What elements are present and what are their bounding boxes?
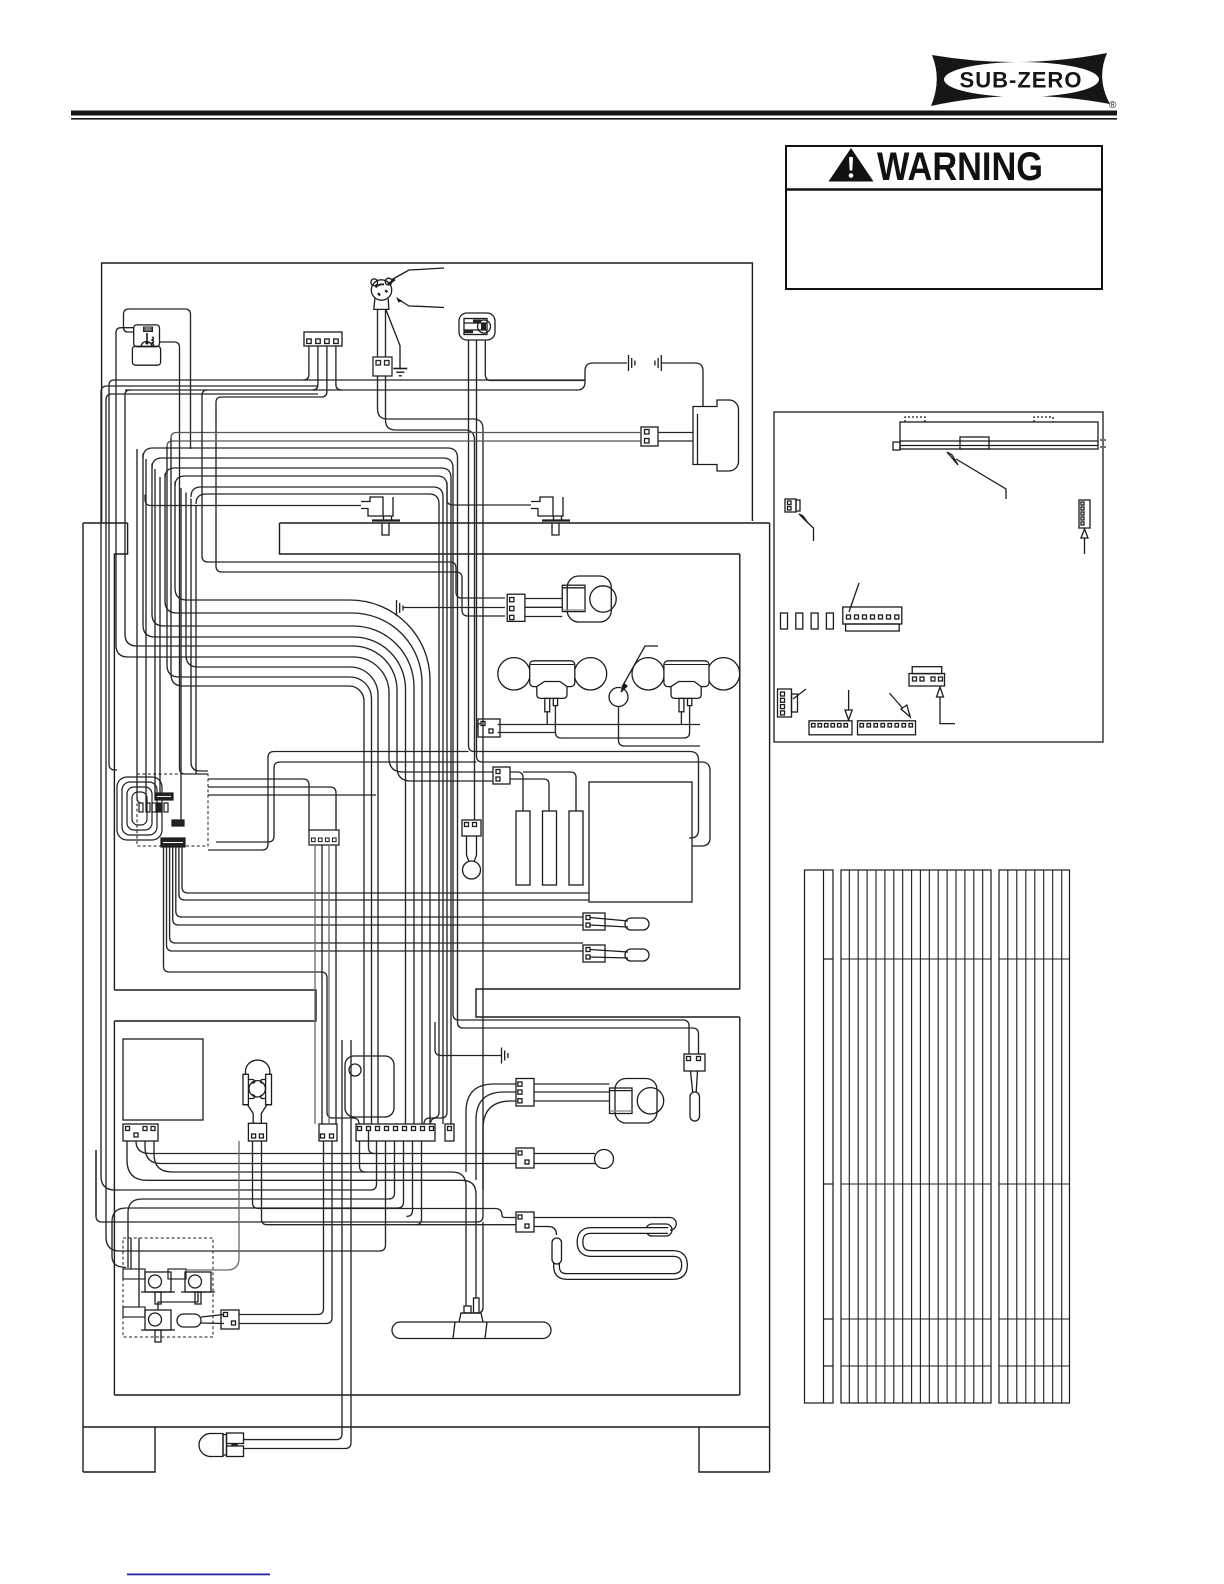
plug ground: [386, 309, 400, 368]
wire receptacle lead 2: [477, 340, 711, 846]
wire lamp thermostat drop: [619, 707, 701, 747]
bottom-left 4-pin vertical connector: [778, 689, 792, 717]
fan thermostat connector: [516, 1148, 534, 1168]
wire mid conn lead 1: [314, 845, 316, 1124]
defrost heater terminal capsule: [552, 1238, 562, 1264]
thermistor connector: [462, 820, 481, 836]
wire bus left 3: [112, 1141, 404, 1268]
wire run 397b: [221, 396, 321, 398]
inner wall right: [739, 554, 741, 989]
capacitor gap symbols: [628, 355, 630, 371]
condenser fan connector: [516, 1079, 664, 1124]
svg-text:®: ®: [1109, 100, 1117, 111]
wire switch loop: [124, 309, 191, 449]
heater capsule 1: [516, 811, 530, 885]
wire ground lower lead: [441, 1055, 502, 1057]
wire cond fan feed 1: [466, 1084, 516, 1172]
cord plug 1 on cabinet top: [361, 497, 400, 535]
wire run 458b: [152, 464, 414, 1125]
wire cond fan feed 3: [483, 1101, 516, 1190]
bottom connector 2: [858, 721, 916, 735]
wire fuse out 1: [239, 1141, 324, 1315]
drain heater capsule 1: [625, 918, 649, 930]
drain heater capsule 2: [625, 949, 649, 961]
svg-text:SUB-ZERO: SUB-ZERO: [960, 68, 1083, 93]
wire bus fan 1: [154, 1141, 466, 1306]
wire run 494: [196, 494, 439, 906]
4-pin connector mid: [909, 674, 945, 687]
ground symbol lower: [502, 1048, 508, 1064]
wire cond fan link 3: [534, 1100, 610, 1102]
door switch: [134, 325, 160, 347]
wire lamp out 1: [253, 1141, 517, 1218]
wire ribbon 3 to heater conn 1: [176, 847, 583, 917]
cabinet bottom wall: [83, 1426, 770, 1428]
wire run 458: [152, 458, 453, 1014]
wire fz stat feed 2: [458, 1022, 699, 1054]
4-pin terminal block: [304, 332, 342, 346]
wire heater trio 2: [510, 779, 549, 811]
blue footer underline: [127, 1574, 270, 1576]
wire compressor pair 1b: [171, 438, 364, 1124]
right fin group: [999, 870, 1070, 1403]
timer 4-pin connector: [123, 1124, 158, 1141]
right vertical connector: [1079, 500, 1090, 528]
defrost heater serpentine tube: [557, 1231, 685, 1277]
wire valve feed b: [138, 1238, 140, 1307]
wire fan ground: [403, 607, 505, 609]
wire plug lead 2: [385, 310, 387, 357]
wire fuse out 2: [239, 1141, 332, 1324]
wire compressor link 2: [658, 440, 693, 442]
wire ribbon 6 to heater conn 2: [167, 847, 584, 951]
wire run 468: [165, 468, 451, 946]
wire strip pin7 tap: [407, 1141, 413, 1216]
receptacle: [459, 313, 495, 340]
evap fan connector: [507, 594, 525, 621]
wire receptacle lead 1: [469, 340, 699, 838]
lamp fixture left: [498, 658, 530, 690]
wire run 380: [109, 380, 585, 385]
wire run 390 capacitor feed: [125, 390, 493, 781]
thermal fuse connector: [221, 1310, 239, 1329]
cabinet top wall segments: [83, 522, 128, 524]
cabinet lamp: [246, 1060, 270, 1074]
solenoid tab 1: [123, 1269, 145, 1279]
wire plug lead 1: [377, 310, 379, 357]
wire compressor pair 2: [167, 441, 641, 447]
drain pan heater bulb: [199, 1433, 223, 1456]
heater trio connector: [493, 767, 510, 784]
thermistor: [463, 861, 481, 879]
lamp 2-pin connector: [248, 1123, 266, 1141]
wire cluster feed 2: [145, 459, 147, 803]
power plug: [371, 280, 391, 300]
wire fan link2: [525, 606, 562, 608]
wire switch feed: [116, 328, 493, 772]
lamp 2-pin connector: [478, 719, 500, 737]
wire strip pin1 tap: [360, 1141, 366, 1172]
wire loop 1: [117, 777, 162, 840]
wire ribbon 5 to heater conn 2: [170, 847, 583, 943]
wire heater feed 2: [442, 914, 444, 1125]
wire run 476: [175, 476, 447, 938]
starter relay rounded box: [345, 1056, 394, 1117]
wire cluster feed 5: [180, 488, 182, 820]
compressor: [693, 400, 739, 471]
connector chip A: [155, 793, 173, 800]
connector chip B: [172, 820, 184, 826]
wire valve feed a: [130, 1238, 132, 1269]
wire run 487: [191, 487, 443, 914]
inner wall top: [280, 523, 740, 554]
svg-text:WARNING: WARNING: [877, 145, 1043, 189]
top compartment outer box: [102, 263, 753, 522]
SUB-ZERO logo: [931, 53, 1117, 111]
condenser grille fins: [841, 870, 1070, 1403]
small connector left: [785, 499, 796, 512]
heater capsule 3: [569, 811, 583, 885]
water valve dashed box: [123, 1238, 213, 1337]
wire s2 feed: [186, 1141, 239, 1270]
wire heater feed 4: [450, 946, 452, 1125]
icemaker box: [589, 782, 692, 902]
wire heater trio 3: [523, 772, 576, 811]
wire lower bus 2: [95, 1150, 97, 1216]
wire cluster out 2: [208, 787, 336, 830]
wire cord 2: [447, 482, 531, 505]
8-pin connector: [843, 607, 902, 624]
right duct slot: [476, 989, 740, 1017]
wire lamp out 2: [262, 1141, 517, 1225]
wire run 494b: [195, 506, 197, 775]
wire river 667: [186, 493, 378, 1125]
wire ribbon 2 to icemaker: [179, 847, 589, 900]
wire heater trio 1: [510, 772, 523, 811]
drain heater connector 1: [583, 913, 605, 930]
thermal fuse: [177, 1314, 201, 1327]
wire capacitor to compressor: [662, 363, 703, 407]
wire cond fan feed 2: [476, 1092, 516, 1180]
left foot: [83, 1427, 155, 1472]
wire run 448b: [143, 454, 406, 1125]
arrow leader to rail: [956, 459, 1006, 499]
solenoid 3: [145, 1310, 171, 1330]
wire plug out 1b: [96, 1150, 483, 1222]
inner bottom wall: [114, 1394, 739, 1396]
wire drain bulb 1: [244, 1040, 343, 1440]
wire loop 4: [132, 792, 147, 825]
wire cluster feed 3: [154, 469, 156, 793]
wire cord 1: [145, 482, 531, 506]
wire valve link: [158, 1292, 198, 1310]
wire bus left 4: [106, 394, 386, 1251]
wire run 468b: [165, 474, 422, 1125]
wire timer out 2: [145, 1141, 516, 1164]
light rail assembly: [900, 422, 1098, 449]
evap fan motor: [567, 576, 611, 622]
freezer thermostat capsule: [690, 1092, 700, 1121]
wire ribbon 7 to strip: [164, 847, 360, 1124]
evaporator fan blade: [392, 1322, 551, 1339]
wire fan feed 1b: [202, 396, 505, 599]
wire cond fan link 2: [534, 1091, 610, 1093]
cabinet outer left wall: [82, 523, 84, 1427]
wire lamp conn fillet: [477, 724, 481, 729]
wire fan link3: [525, 616, 562, 618]
solenoid 2: [185, 1272, 211, 1292]
wire run 448: [143, 448, 458, 1022]
wire compressor pair 1: [171, 433, 641, 439]
defrost heater connector: [516, 1212, 534, 1232]
row of 4 small rects: [781, 613, 788, 629]
wire compressor pair 2b: [167, 447, 372, 1125]
lamp fixture right: [632, 658, 664, 690]
wire pin3 stub: [321, 346, 327, 397]
aux 2-pin connector: [319, 1124, 337, 1141]
wire cluster out 1: [208, 779, 309, 830]
wire lamp bus 1: [498, 724, 700, 726]
freezer thermostat connector: [684, 1054, 705, 1071]
wire run 397: [216, 397, 505, 616]
wire strip pin8 tap: [416, 1141, 422, 1225]
heater capsule 2: [543, 811, 557, 885]
wire heater feed 3: [431, 938, 448, 1125]
control dashed box: [137, 774, 208, 846]
right foot: [699, 1427, 770, 1472]
wire cluster feed 4: [159, 477, 161, 793]
wire heater feed 1: [424, 906, 439, 1125]
left duct slot: [114, 990, 316, 1021]
wire run 380 left drop: [109, 385, 117, 770]
wire cluster feed 1: [137, 449, 141, 803]
wire compressor link 1: [658, 432, 693, 434]
cabinet outer right wall: [769, 523, 771, 1472]
wire cluster out 3: [208, 794, 376, 796]
wire mid conn lead 4: [335, 845, 337, 1124]
wire fz stat feed 1: [453, 1014, 689, 1054]
left bar: [805, 870, 834, 1403]
fan thermostat bulb: [595, 1150, 614, 1169]
wire mid conn lead 3: [328, 845, 330, 1124]
12-pin terminal strip: [356, 1124, 435, 1141]
wire run 487b: [191, 499, 208, 772]
wire fan stem 3: [478, 1222, 484, 1313]
wire pin2 stub: [312, 346, 318, 390]
wire fan link1: [525, 598, 562, 600]
wire bus fan 2: [127, 1141, 476, 1298]
wire loop 3: [127, 787, 152, 830]
wire ribbon 1 to icemaker: [182, 847, 589, 893]
wire ribbon 4 to heater conn 1: [173, 847, 583, 925]
wire timer out 1: [136, 1141, 516, 1154]
WARNING box: [786, 146, 1102, 289]
ground symbol mid: [396, 600, 398, 616]
wire run 476b: [175, 482, 430, 1125]
wire lamp pin stub b: [680, 712, 682, 725]
wire loop 2: [122, 782, 157, 835]
solenoid tab 2: [168, 1269, 186, 1279]
compressor 2-pin connector: [641, 427, 658, 446]
wire mid conn lead 2: [321, 845, 323, 1124]
wire plug out 1: [378, 376, 484, 1216]
condenser fan motor: [615, 1079, 657, 1124]
wire pin1 stub: [303, 346, 309, 380]
lamp thermostat: [609, 688, 628, 707]
wire lamp bus 2: [498, 732, 556, 734]
wire bus left 1: [101, 386, 377, 1190]
ribbon connector: [161, 838, 185, 847]
wire bus left 2: [128, 1141, 395, 1268]
solenoid tab 3: [123, 1307, 145, 1317]
wire pin4 stub: [336, 346, 342, 390]
plug leader lines: [392, 268, 444, 280]
1-pin connector: [445, 1124, 454, 1141]
defrost timer box: [123, 1039, 203, 1120]
wire shelf left 1: [208, 752, 469, 851]
wire lamp bus 3: [555, 706, 689, 738]
wire plug out 2: [386, 376, 475, 820]
cord plug 2 on cabinet top: [531, 497, 570, 535]
wire strip pin2 tap: [369, 1131, 375, 1154]
wire drain bulb 2: [244, 1040, 352, 1449]
pin row: [139, 803, 143, 812]
bottom connector 1: [809, 721, 852, 735]
wire fan feed 1: [202, 390, 208, 396]
middle fin group: [841, 870, 991, 1403]
wire receptacle third: [485, 340, 585, 381]
wire shelf left 2: [216, 762, 477, 842]
inner wall left step: [114, 523, 127, 990]
wire switch out: [160, 342, 209, 774]
wire run 390: [125, 363, 627, 390]
wire cond fan link 1: [534, 1083, 610, 1085]
wire lamp pin stub: [546, 712, 548, 725]
connector plug 2-pin: [373, 357, 392, 376]
solenoid 1: [145, 1272, 171, 1292]
double rule under header: [71, 111, 1117, 116]
defrost heater feed + end cap: [534, 1218, 676, 1231]
drain heater connector 2: [583, 945, 605, 962]
connector mid 4-pin: [309, 830, 339, 845]
